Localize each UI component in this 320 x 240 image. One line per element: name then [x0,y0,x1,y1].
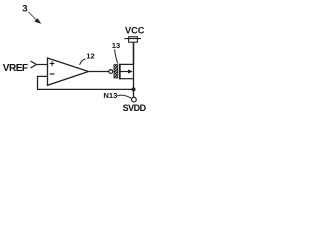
leader line 12 [80,59,86,65]
input terminal bracket [31,61,37,68]
svg-text:13: 13 [112,41,120,50]
transistor gate plate (hatched) [114,65,118,79]
wire op-amp output to gate [89,71,110,73]
transistor body wire with arrow [120,71,130,73]
transistor drain wire (bottom) [120,78,134,80]
junction node dot [132,87,136,91]
arrow from label 3 [28,12,37,21]
wire VCC down through transistor to output node [133,42,135,64]
svg-text:3: 3 [22,4,27,15]
feedback wire to op-amp - input [38,76,134,89]
svg-text:VCC: VCC [125,26,145,36]
svg-text:SVDD: SVDD [123,103,147,113]
VCC terminal crossbar [124,38,141,40]
svg-text:VREF: VREF [3,63,28,74]
op-amp plus sign [50,61,55,66]
leader line N13 [117,95,131,98]
VCC terminal box [129,37,138,42]
transistor source wire (top) [120,63,134,65]
op-amp minus sign [50,73,55,75]
node N13 terminal circle [132,97,137,102]
op-amp U12 triangle [48,58,89,85]
transistor channel plate [119,64,121,80]
transistor Q13 gate bubble [109,70,113,74]
wire VREF to op-amp + input [37,64,48,66]
svg-text:N13: N13 [103,91,117,100]
svg-text:12: 12 [86,52,94,61]
leader line 13 [115,49,118,63]
